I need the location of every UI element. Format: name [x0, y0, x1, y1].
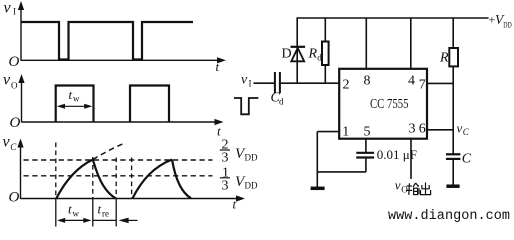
wire R bottom down to C top [452, 66, 454, 154]
wire pin 8 to rail [365, 18, 367, 69]
capacitor Cd [275, 72, 280, 93]
wire x-axis middle plot [22, 119, 224, 125]
svg-text:I: I [13, 7, 16, 17]
node tre label bottom plot [98, 202, 110, 219]
wire dashed vertical line 4 (second trigger) [131, 158, 133, 199]
svg-text:v: v [395, 178, 401, 193]
wire vO pulse 1 [56, 86, 94, 123]
wire dashed level line 2/3 VDD [24, 159, 213, 161]
node 2/3 VDD label [220, 138, 258, 166]
wire y-axis bottom plot [17, 139, 23, 200]
diode D [291, 47, 306, 62]
resistor R [449, 48, 458, 66]
svg-text:3: 3 [222, 151, 229, 166]
node 1/3 VDD label [220, 166, 258, 194]
svg-text:v: v [4, 0, 12, 16]
svg-text:8: 8 [364, 73, 371, 88]
svg-text:3: 3 [409, 121, 416, 136]
wire x-axis top plot [21, 57, 226, 63]
wire pin 7 to R bottom node [427, 82, 453, 84]
wire tre external arrow [119, 218, 138, 224]
svg-text:t: t [69, 87, 73, 102]
wire vI waveform trace [21, 22, 193, 60]
svg-text:DD: DD [245, 153, 258, 163]
node vO output label [395, 178, 431, 195]
node vI axis label [4, 0, 17, 17]
wire dashed vertical line 1 (trigger) [55, 143, 57, 227]
wire pin 4 to rail [410, 18, 412, 69]
wire dashed level line 1/3 VDD [24, 175, 213, 177]
glyph 出 [421, 183, 431, 195]
svg-text:t: t [216, 59, 220, 74]
svg-text:d: d [317, 53, 322, 63]
svg-text:C: C [463, 127, 470, 137]
svg-text:R: R [439, 51, 449, 66]
wire C bottom to ground [452, 159, 454, 186]
svg-text:O: O [11, 81, 18, 91]
svg-text:www.diangon.com: www.diangon.com [388, 209, 510, 224]
svg-text:C: C [10, 142, 17, 152]
wire vC dashed charge extension [93, 143, 126, 160]
svg-text:3: 3 [222, 179, 229, 194]
svg-text:6: 6 [419, 121, 426, 136]
node tw label middle plot [69, 87, 81, 104]
svg-text:CC 7555: CC 7555 [370, 97, 409, 112]
svg-text:O: O [9, 54, 20, 70]
svg-text:t: t [68, 202, 72, 217]
node Rd label [308, 47, 323, 63]
svg-text:v: v [457, 121, 463, 136]
glyph 输 [406, 183, 419, 195]
wire x-axis bottom plot [21, 195, 246, 201]
wire y-axis top plot [18, 1, 24, 61]
wire y-axis middle plot [18, 74, 24, 123]
wire 0.01uF bottom down [365, 158, 367, 172]
ground under pin 1 [311, 187, 325, 191]
svg-text:d: d [279, 97, 284, 107]
wire dashed vertical line 2 (end of tw) [92, 157, 94, 227]
svg-text:5: 5 [364, 125, 371, 140]
svg-text:w: w [73, 209, 80, 219]
capacitor C [446, 154, 460, 159]
wire diode branch vertical [296, 18, 298, 83]
svg-text:1: 1 [342, 125, 349, 140]
capacitor C3 0.01uF [356, 153, 374, 158]
wire tw dimension arrow middle plot [57, 104, 93, 109]
node vC label [457, 121, 470, 138]
wire vC discharge curve 1 [93, 160, 116, 199]
svg-text:R: R [308, 47, 318, 62]
wire pin1/pin5 ground bus [317, 132, 366, 188]
wire vO pulse 2 [130, 86, 169, 123]
node vI input label [241, 73, 252, 89]
node vC axis label [3, 134, 18, 153]
node vO axis label [3, 72, 18, 91]
svg-text:2: 2 [343, 78, 350, 93]
svg-text:O: O [10, 115, 21, 131]
svg-text:w: w [73, 94, 80, 104]
op-amp U1 CC7555 IC box [339, 69, 427, 139]
ground under C [446, 184, 459, 188]
svg-text:4: 4 [408, 73, 415, 88]
node tw label bottom plot [68, 202, 80, 219]
svg-text:DD: DD [245, 181, 258, 191]
node +VDD label [489, 12, 512, 30]
node Cd label [271, 91, 285, 107]
wire input to Cd [254, 82, 275, 84]
wire R branch to rail [452, 18, 454, 49]
svg-text:v: v [3, 72, 11, 89]
wire pin 5 down [365, 139, 367, 152]
wire Rd branch vertical bottom [324, 65, 326, 83]
wire tre dimension line bottom plot [93, 219, 116, 221]
wire vC charge curve 1 [56, 160, 93, 199]
wire vC charge curve 2 [132, 160, 172, 199]
wire pin 6 to vC node [427, 129, 453, 131]
wire dashed vertical line 3 (end of tre) [115, 158, 117, 227]
wire vC discharge curve 2 [172, 160, 191, 199]
wire tw dimension arrow bottom plot [57, 218, 92, 223]
wire Cd to pin 2 [281, 82, 340, 84]
svg-text:I: I [249, 79, 252, 89]
svg-text:DD: DD [503, 20, 512, 30]
node input pulse icon [234, 98, 258, 114]
resistor Rd [322, 42, 329, 66]
svg-text:t: t [98, 202, 102, 217]
wire pin 3 output down [410, 139, 412, 179]
wire Rd branch vertical top [324, 18, 326, 42]
svg-text:t: t [233, 197, 237, 212]
svg-text:O: O [9, 190, 20, 206]
svg-text:7: 7 [419, 78, 426, 93]
svg-text:v: v [241, 73, 248, 88]
svg-text:re: re [102, 209, 109, 219]
svg-text:D: D [282, 47, 292, 62]
svg-text:t: t [217, 124, 221, 139]
wire +VDD top rail [296, 17, 488, 19]
svg-text:C: C [462, 152, 472, 167]
